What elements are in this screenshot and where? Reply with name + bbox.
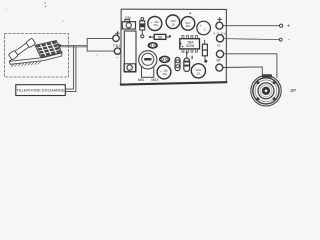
capacitor C6 [191,64,205,78]
svg-text:-: - [288,37,290,43]
telephone keypad [35,41,62,58]
telephone cord attachment [58,44,62,49]
wire battery + [223,25,280,27]
capacitor C2 [166,15,180,29]
PCB bottom edge (thick) [121,82,227,84]
capacitor C5 [157,65,171,79]
pad TEL + [113,35,119,41]
drop wire 1 to exchange [65,46,73,90]
svg-text:56: 56 [158,36,162,40]
potentiometer VR1 [139,51,157,69]
wire speaker 1 [224,54,277,78]
resistor R1 [149,34,171,39]
switch S1 [122,20,135,29]
label + (TEL) [116,32,119,35]
capacitor C1 [148,17,162,31]
wire to TEL pad + [87,37,112,39]
label + (battery) [218,17,222,21]
svg-text:25v: 25v [163,72,168,76]
svg-text:MAX: MAX [151,78,159,82]
svg-text:SP: SP [290,88,296,93]
svg-text:25v: 25v [154,23,159,27]
wire to TEL pad − [87,50,114,52]
potentiometer VR1 body [142,66,154,77]
solder speck [189,12,191,14]
dashed enclosure around telephone [5,34,69,78]
pad battery − [216,35,223,42]
op-amp U1 TBA820M [180,36,200,53]
ceramic capacitor C7 [148,43,157,48]
svg-text:+: + [287,23,290,29]
svg-text:-: - [117,54,119,60]
ceramic capacitor C8 [160,56,170,62]
noise specks [44,2,45,3]
drop wire 2 to exchange [65,47,76,92]
telephone handset [8,38,35,60]
svg-text:SP: SP [216,59,220,63]
resistor R3 [184,52,190,72]
diode D1 [140,17,145,38]
telephone body [9,48,62,65]
svg-text:10: 10 [197,71,201,75]
pad TEL − [114,48,120,54]
wire battery − [224,39,280,40]
terminal + [280,24,283,27]
telephone exchange box [16,85,66,96]
svg-text:MIN: MIN [138,78,145,82]
capacitor C4 [197,21,211,35]
svg-text:G: G [217,43,220,47]
telephone cord pair [62,45,88,47]
film capacitor C9 [175,57,180,70]
pad speaker 1 [216,50,223,57]
junction split wire [86,38,88,51]
svg-text:TELEPHONE EXCHANGE: TELEPHONE EXCHANGE [16,88,65,93]
svg-text:+: + [200,24,202,28]
pad speaker 2 [216,64,223,71]
lead stub [191,56,193,59]
capacitor C3 [181,17,195,31]
speaker LS1 [251,74,281,106]
transformer T1 bottom mount [124,64,136,72]
pad battery + [216,22,223,29]
svg-text:25v: 25v [186,24,191,28]
svg-text:820M: 820M [186,44,194,48]
wire speaker 2 [223,67,262,77]
svg-text:10: 10 [171,22,175,26]
PCB board outline [121,9,227,85]
transformer T1 body [124,31,136,72]
resistor R2 [202,40,207,63]
telephone base hatching [12,62,41,67]
terminal − [279,38,282,41]
